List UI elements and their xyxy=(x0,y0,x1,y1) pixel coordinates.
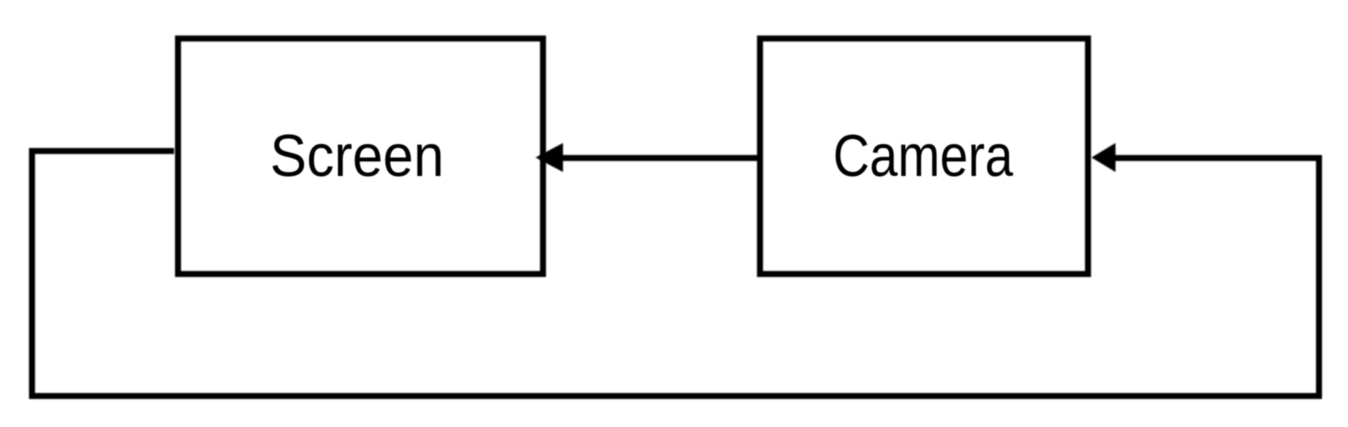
arrowhead into Camera xyxy=(1092,143,1116,172)
arrowhead into Screen xyxy=(536,143,564,172)
svg-text:Screen: Screen xyxy=(270,123,444,189)
box Screen xyxy=(178,39,543,275)
wire right arrow shaft xyxy=(1110,155,1322,161)
wire Camera to Screen arrow shaft xyxy=(560,155,757,161)
wire feedback loop Screen-left down bottom right-up xyxy=(32,151,1319,396)
svg-text:Camera: Camera xyxy=(833,123,1013,189)
box Camera xyxy=(760,39,1088,275)
